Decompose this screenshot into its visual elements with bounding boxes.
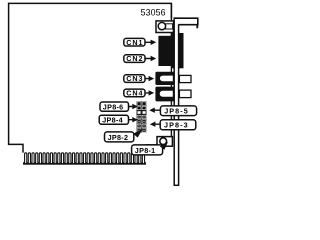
bracket strip — [174, 18, 178, 185]
microphone jack thumbwheel — [157, 137, 172, 147]
CN1/CN2 phone jack block — [158, 36, 173, 66]
jack block through-bracket part — [172, 33, 184, 68]
svg-text:CN2: CN2 — [126, 54, 143, 63]
CN4 bracket opening — [179, 90, 191, 98]
label JP8-3 — [150, 120, 196, 130]
edge connector baseline — [23, 162, 146, 164]
CN4 jack body — [155, 87, 176, 102]
CN4 jack barrel — [159, 90, 173, 97]
svg-text:JP8-6: JP8-6 — [103, 102, 124, 111]
svg-text:JP8-3: JP8-3 — [164, 121, 189, 130]
microphone jack circle — [160, 138, 167, 145]
svg-text:53056: 53056 — [141, 7, 166, 17]
label JP8-1 — [132, 142, 168, 155]
svg-text:JP8-5: JP8-5 — [164, 107, 189, 116]
label CN2 — [124, 54, 156, 63]
CN3 jack body — [155, 72, 176, 85]
label JP8-4 — [99, 115, 138, 124]
svg-text:CN3: CN3 — [126, 74, 143, 83]
svg-text:CN4: CN4 — [126, 89, 143, 98]
CN3 bracket opening — [179, 75, 191, 82]
label JP8-6 — [100, 102, 138, 111]
card right edge — [170, 3, 172, 137]
jumper block JP8 — [137, 101, 147, 132]
label CN3 — [124, 74, 154, 83]
svg-text:JP8-1: JP8-1 — [135, 146, 156, 155]
svg-text:JP8-2: JP8-2 — [108, 133, 129, 142]
card bottom edge right segment — [146, 145, 172, 153]
CN3 jack barrel — [159, 75, 173, 82]
thumbwheel inner slot — [166, 24, 173, 29]
card PCB outline — [9, 3, 172, 152]
thumbwheel circle — [158, 22, 165, 29]
bracket tab lip — [196, 25, 198, 29]
volume thumbwheel housing — [156, 21, 174, 33]
edge connector fingers — [25, 153, 145, 164]
svg-text:JP8-4: JP8-4 — [102, 116, 123, 125]
bracket top tab — [174, 18, 198, 25]
label CN4 — [124, 89, 154, 98]
svg-text:CN1: CN1 — [126, 38, 143, 47]
label JP8-2 — [105, 129, 144, 142]
label CN1 — [124, 38, 156, 47]
label JP8-5 — [149, 106, 196, 116]
